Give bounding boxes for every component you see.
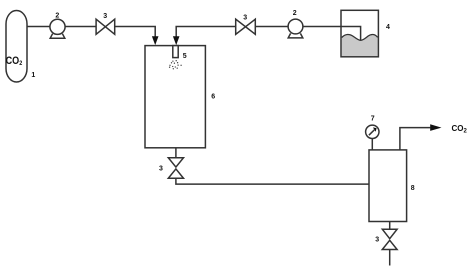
wire vessel 8 bottom stub <box>389 222 391 230</box>
pump 2 (right) body <box>288 19 303 34</box>
pump 2 (left) body <box>50 19 65 34</box>
wire valve 3 to pump 2 (right) <box>255 26 288 28</box>
pump 2 (right) stand <box>288 33 303 38</box>
svg-text:8: 8 <box>411 185 415 192</box>
valve 3 (under vessel 6) <box>168 158 183 167</box>
wire pump 2 to valve 3 <box>65 26 96 28</box>
arrow into vessel 6 <box>152 36 159 45</box>
svg-text:7: 7 <box>371 115 375 122</box>
arrow into nozzle 5 <box>173 36 180 45</box>
svg-text:2: 2 <box>293 10 297 17</box>
nozzle 5 <box>173 46 178 58</box>
wire vessel 6 bottom stub <box>175 148 177 158</box>
svg-text:CO2: CO2 <box>452 124 468 134</box>
vessel 6 <box>145 46 205 148</box>
gauge 7 stem <box>371 138 373 150</box>
svg-text:1: 1 <box>31 72 35 79</box>
wire valve 3 to vessel 6 inlet <box>115 27 156 38</box>
valve 3 (left) <box>96 19 115 34</box>
spray dots <box>169 60 182 69</box>
gauge 7 body <box>366 125 379 138</box>
svg-text:5: 5 <box>183 53 187 60</box>
wire CO2 outlet <box>400 128 431 150</box>
wire cylinder to pump 2 <box>27 26 50 28</box>
tank 4 liquid <box>342 34 378 56</box>
gauge 7 needle <box>369 130 375 135</box>
valve 3 (under vessel 8) <box>382 229 397 239</box>
tank 4 <box>341 10 378 57</box>
tank 4 liquid surface <box>342 34 378 40</box>
vessel 8 <box>369 150 407 222</box>
wire valve 3 right branch to nozzle 5 <box>176 27 235 38</box>
svg-text:6: 6 <box>211 93 215 100</box>
svg-text:3: 3 <box>103 13 107 20</box>
wire pump 2 to tank 4 with dip tube <box>303 27 361 48</box>
svg-text:3: 3 <box>159 165 163 172</box>
arrow CO2 outlet <box>430 124 441 131</box>
svg-text:3: 3 <box>375 236 379 243</box>
svg-text:3: 3 <box>243 15 247 22</box>
wire valve to vessel 8 <box>176 178 369 184</box>
valve 3 (right) <box>236 19 256 34</box>
pump 2 (left) stand <box>50 34 65 39</box>
wire drain below valve <box>389 250 391 266</box>
svg-text:2: 2 <box>55 12 59 19</box>
CO2 cylinder text <box>6 56 23 68</box>
CO2 cylinder 1 <box>6 11 27 83</box>
svg-text:4: 4 <box>386 24 390 31</box>
